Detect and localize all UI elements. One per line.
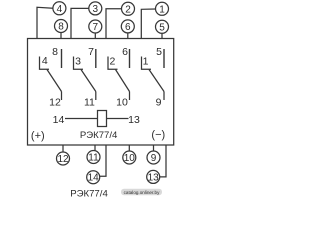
wire box to terminal 14	[100, 145, 106, 176]
svg-text:5: 5	[156, 46, 162, 58]
terminal circle 1	[156, 2, 169, 15]
watermark pill	[121, 189, 162, 195]
contact pole 1 NC stationary bar (pin 8)	[61, 49, 63, 68]
contact pole 4 common tick (pin 9)	[163, 92, 165, 101]
wire terminal 6 to box	[127, 33, 129, 39]
contact pole 1 movable blade	[47, 70, 62, 92]
svg-text:14: 14	[88, 173, 100, 184]
svg-text:14: 14	[53, 114, 65, 126]
svg-text:3: 3	[75, 56, 81, 68]
wire box to terminal 11	[94, 145, 96, 151]
relay body outline	[28, 39, 174, 146]
terminal circle 14	[87, 171, 100, 184]
svg-text:6: 6	[122, 46, 128, 58]
svg-text:РЭК77/4: РЭК77/4	[80, 130, 118, 141]
coil wire pin 14 side	[65, 118, 98, 120]
svg-text:catalog.onliner.by: catalog.onliner.by	[124, 190, 160, 195]
svg-text:7: 7	[88, 46, 94, 58]
wire terminal 1 to box	[141, 9, 155, 39]
contact pole 2 movable blade	[81, 70, 96, 92]
svg-text:8: 8	[52, 46, 58, 58]
wire terminal 5 to box	[161, 33, 163, 38]
wire box to terminal 10	[128, 145, 130, 151]
terminal circle 7	[89, 20, 102, 33]
contact pole 2 NO stationary contact (pin 3)	[74, 57, 84, 70]
terminal circle 5	[156, 20, 169, 33]
svg-text:4: 4	[42, 55, 48, 67]
terminal circle 4	[53, 2, 66, 15]
contact pole 4 movable blade	[149, 70, 164, 92]
terminal circle 8	[55, 20, 68, 33]
terminal circle 10	[123, 151, 136, 164]
svg-text:2: 2	[109, 56, 115, 68]
svg-text:10: 10	[116, 97, 128, 109]
svg-text:2: 2	[125, 4, 131, 15]
svg-text:(−): (−)	[151, 129, 165, 141]
contact pole 1 NO stationary contact (pin 4)	[40, 57, 50, 70]
wire terminal 3 to box	[71, 8, 89, 38]
coil wire pin 13 side	[107, 118, 129, 120]
svg-text:1: 1	[143, 56, 149, 68]
contact pole 2 common tick (pin 11)	[95, 92, 97, 101]
terminal circle 2	[122, 2, 135, 15]
svg-text:7: 7	[93, 22, 99, 33]
svg-text:9: 9	[151, 153, 157, 164]
svg-text:1: 1	[159, 4, 165, 15]
wire terminal 4 to box	[37, 7, 53, 38]
terminal circle 6	[121, 20, 134, 33]
terminal circle 11	[87, 151, 100, 164]
svg-text:8: 8	[58, 22, 64, 33]
svg-text:12: 12	[49, 97, 61, 109]
contact pole 4 NO stationary contact (pin 1)	[142, 57, 152, 70]
svg-text:6: 6	[125, 22, 131, 33]
contact pole 2 NC stationary bar (pin 7)	[95, 49, 97, 68]
terminal circle 12	[57, 152, 70, 165]
svg-text:11: 11	[88, 153, 99, 164]
terminal circle 13	[147, 170, 160, 183]
svg-text:9: 9	[156, 97, 162, 109]
wire terminal 7 to box	[94, 33, 96, 39]
wire box to terminal 9	[153, 145, 155, 151]
contact pole 4 NC stationary bar (pin 5)	[163, 49, 165, 68]
svg-text:3: 3	[93, 4, 99, 15]
svg-text:13: 13	[148, 172, 160, 183]
wire box to terminal 13	[160, 145, 166, 177]
relay coil rectangle	[98, 111, 107, 127]
contact pole 3 common tick (pin 10)	[129, 92, 131, 101]
svg-text:5: 5	[159, 22, 165, 33]
wire terminal 2 to box	[106, 9, 122, 39]
contact pole 1 common tick (pin 12)	[61, 92, 63, 101]
contact pole 3 NO stationary contact (pin 2)	[108, 57, 118, 70]
svg-text:12: 12	[57, 154, 69, 165]
terminal circle 9	[147, 151, 160, 164]
contact pole 3 movable blade	[116, 70, 130, 92]
svg-text:4: 4	[57, 4, 63, 15]
svg-text:13: 13	[128, 114, 140, 126]
svg-text:10: 10	[124, 153, 136, 164]
svg-text:11: 11	[84, 97, 95, 109]
svg-text:(+): (+)	[31, 130, 45, 142]
svg-text:РЭК77/4: РЭК77/4	[70, 188, 108, 199]
terminal circle 3	[89, 2, 102, 15]
wire box to terminal 12	[62, 145, 64, 152]
contact pole 3 NC stationary bar (pin 6)	[129, 49, 131, 68]
wire terminal 8 to box	[60, 33, 62, 39]
